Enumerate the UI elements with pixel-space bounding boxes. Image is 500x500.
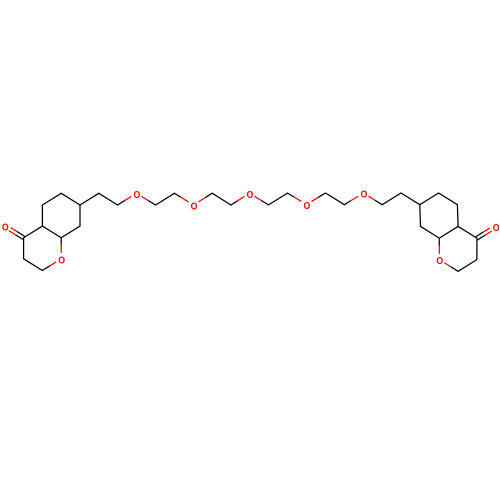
svg-text:O: O xyxy=(247,189,254,201)
svg-text:O: O xyxy=(191,201,198,213)
svg-text:O: O xyxy=(436,256,443,268)
svg-text:O: O xyxy=(360,189,367,201)
svg-text:O: O xyxy=(304,200,311,212)
svg-text:O: O xyxy=(133,189,140,201)
svg-text:O: O xyxy=(2,222,9,234)
svg-text:O: O xyxy=(493,222,500,234)
svg-text:O: O xyxy=(58,255,65,267)
